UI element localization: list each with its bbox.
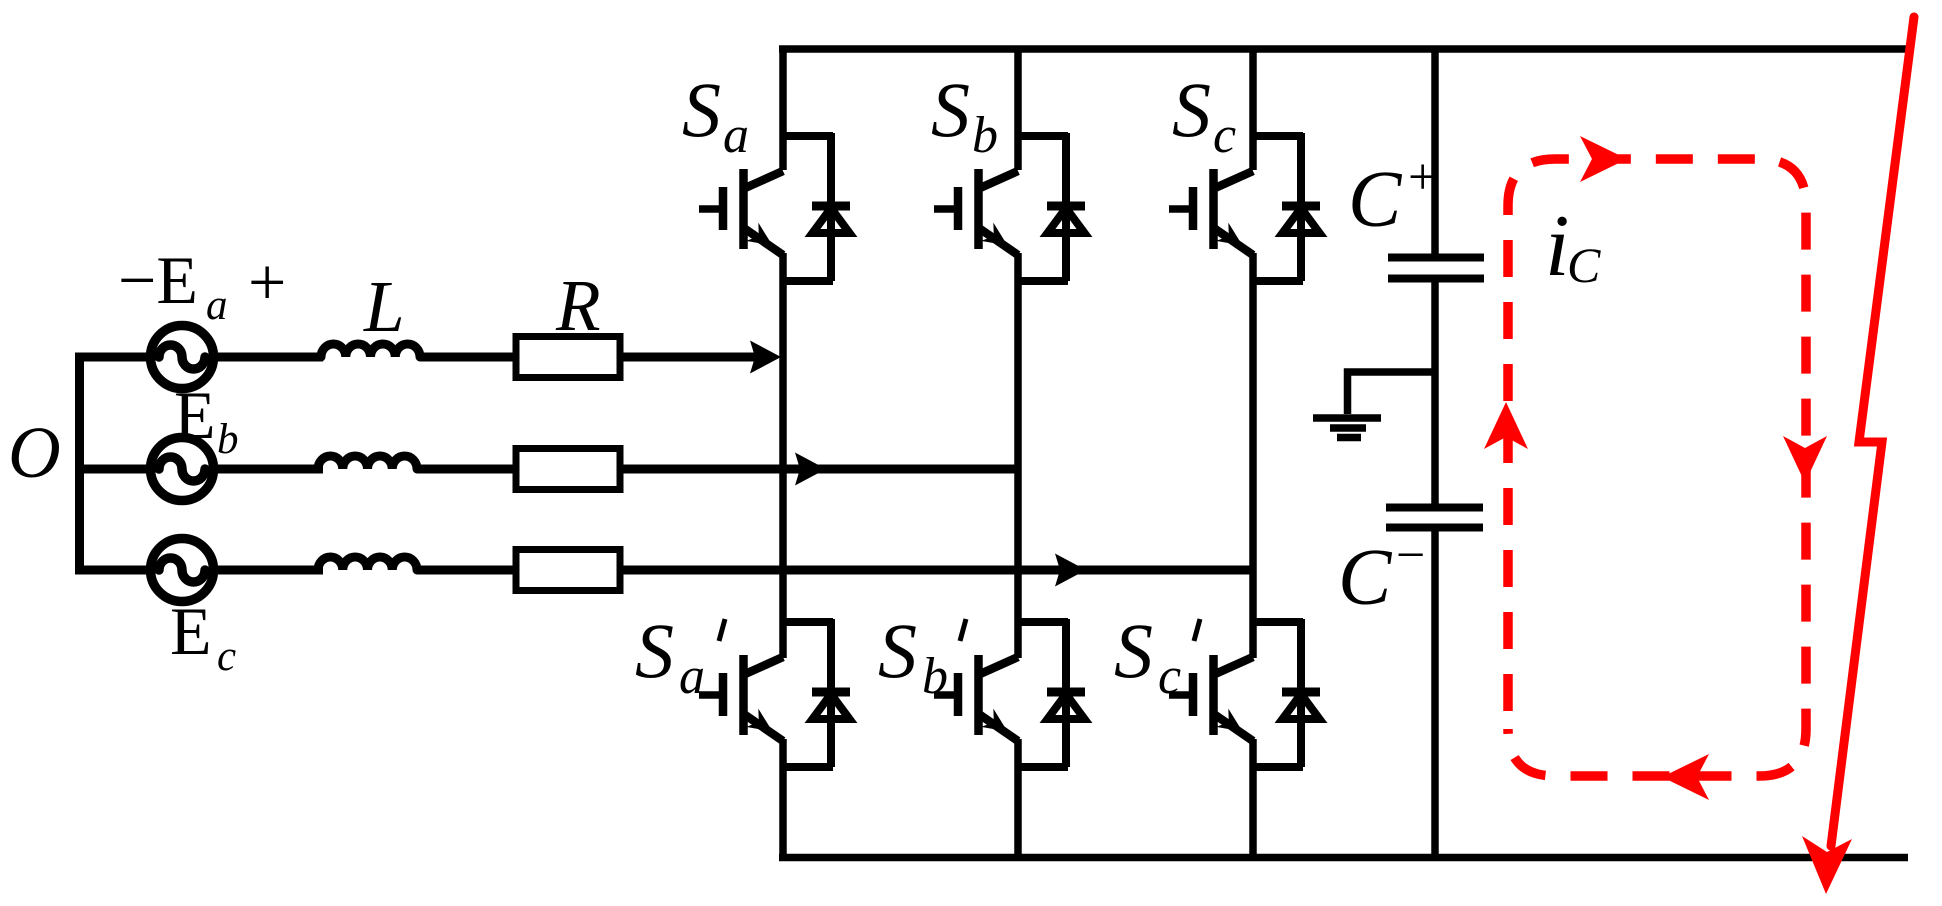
collector lead diagonal bbox=[1214, 657, 1253, 675]
svg-text:i: i bbox=[1545, 198, 1569, 295]
gate bar bbox=[1189, 187, 1198, 230]
wire phase c: source to inductor bbox=[213, 566, 323, 575]
svg-text:S: S bbox=[931, 66, 970, 153]
wire emitter branch bottom bbox=[1018, 763, 1068, 771]
gate lead bbox=[1169, 691, 1193, 699]
wire collector branch top bbox=[1018, 132, 1068, 140]
AC source Eb bbox=[151, 438, 214, 501]
svg-text:c: c bbox=[217, 633, 236, 680]
svg-text:C: C bbox=[1567, 237, 1601, 293]
wire collector branch top bbox=[783, 618, 833, 626]
svg-text:c: c bbox=[1158, 648, 1181, 705]
emitter lead diagonal bbox=[1215, 229, 1254, 256]
wire bridge leg c upper bbox=[1249, 46, 1257, 170]
diode D_Sb cathode bar bbox=[1047, 202, 1085, 211]
wire diode branch vertical bbox=[1297, 133, 1305, 281]
emitter lead diagonal bbox=[1215, 715, 1254, 742]
svg-text:−E: −E bbox=[118, 242, 198, 318]
label C- bbox=[1338, 527, 1425, 622]
wire bridge leg a lower bbox=[779, 739, 787, 860]
label Sa' bbox=[635, 607, 705, 705]
svg-text:−: − bbox=[1396, 527, 1425, 584]
wire diode branch vertical bbox=[1297, 619, 1305, 767]
wire emitter branch bottom bbox=[783, 763, 833, 771]
wire bridge leg a upper bbox=[779, 46, 787, 170]
IGBT body bar bbox=[974, 655, 983, 735]
prime mark of Sa' bbox=[719, 619, 725, 641]
wire phase c: inductor to resistor bbox=[417, 566, 518, 575]
wire emitter branch bottom bbox=[783, 277, 833, 285]
svg-text:C: C bbox=[1338, 534, 1393, 622]
wire phase a: resistor to bridge leg a bbox=[620, 353, 760, 362]
IGBT body bar bbox=[974, 169, 983, 249]
transistor Sc' (IGBT with anti-parallel diode) bbox=[1169, 619, 1320, 767]
collector lead diagonal bbox=[744, 657, 783, 675]
wire DC link vertical lower bbox=[1431, 531, 1439, 861]
svg-text:O: O bbox=[8, 412, 61, 493]
diode D_Sb triangle bbox=[1048, 208, 1085, 233]
gate bar bbox=[954, 187, 963, 230]
collector lead diagonal bbox=[979, 171, 1018, 189]
wire bridge leg b upper bbox=[1014, 46, 1022, 170]
wire phase b: source to inductor bbox=[213, 465, 323, 474]
label Sc' bbox=[1114, 607, 1181, 705]
IGBT body bar bbox=[739, 169, 748, 249]
wire diode branch vertical bbox=[1062, 619, 1070, 767]
gate lead bbox=[934, 205, 958, 213]
label Sc bbox=[1172, 66, 1236, 164]
resistor R phase c bbox=[516, 550, 620, 591]
gate lead bbox=[699, 691, 723, 699]
transistor Sa' (IGBT with anti-parallel diode) bbox=[699, 619, 850, 767]
diode D_Sc cathode bar bbox=[1282, 202, 1320, 211]
wire diode branch vertical bbox=[827, 619, 835, 767]
diode D_Sa' triangle bbox=[813, 694, 850, 719]
wire neutral bus vertical bbox=[75, 353, 84, 575]
svg-text:c: c bbox=[1213, 107, 1236, 164]
IGBT body bar bbox=[1209, 655, 1218, 735]
wire neutral stub phase c bbox=[76, 566, 151, 575]
label Sa bbox=[682, 66, 749, 164]
emitter arrow bbox=[981, 709, 1014, 741]
label C+ bbox=[1348, 149, 1437, 244]
red lightning bolt arrowhead bbox=[1802, 836, 1852, 894]
svg-text:a: a bbox=[723, 107, 749, 164]
emitter arrow bbox=[981, 223, 1014, 255]
wire DC link vertical upper bbox=[1431, 46, 1439, 254]
gate lead bbox=[934, 691, 958, 699]
svg-text:R: R bbox=[555, 265, 601, 346]
wire DC link vertical middle bbox=[1431, 282, 1439, 504]
wire negative DC rail (bottom) bbox=[779, 854, 1908, 862]
arrow iC bottom (leftward) bbox=[1662, 754, 1709, 800]
gate bar bbox=[719, 187, 728, 230]
arrow iC left (upward) bbox=[1484, 402, 1528, 449]
arrow phase b current bbox=[795, 453, 826, 486]
prime mark of Sc' bbox=[1194, 619, 1200, 641]
diode D_Sa triangle bbox=[813, 208, 850, 233]
label Sb bbox=[931, 66, 998, 164]
arrow iC top (rightward) bbox=[1580, 136, 1627, 182]
svg-text:a: a bbox=[679, 648, 705, 705]
transistor Sc (IGBT with anti-parallel diode) bbox=[1169, 133, 1320, 281]
wire bridge leg c middle bbox=[1249, 253, 1257, 658]
collector lead diagonal bbox=[1214, 171, 1253, 189]
transistor Sb' (IGBT with anti-parallel diode) bbox=[934, 619, 1085, 767]
diode D_Sb' cathode bar bbox=[1047, 688, 1085, 697]
resistor R phase a bbox=[516, 337, 620, 378]
diode D_Sc triangle bbox=[1283, 208, 1320, 233]
emitter lead diagonal bbox=[980, 229, 1019, 256]
label Eb bbox=[174, 377, 239, 463]
label Sb' bbox=[878, 607, 948, 705]
wire collector branch top bbox=[1253, 618, 1303, 626]
diode D_Sb' triangle bbox=[1048, 694, 1085, 719]
svg-text:E: E bbox=[174, 377, 216, 453]
arrow iC right (downward) bbox=[1783, 436, 1827, 483]
capacitor C- bbox=[1386, 508, 1483, 528]
wire phase a: inductor to resistor bbox=[420, 353, 518, 362]
svg-text:S: S bbox=[1114, 607, 1153, 694]
inductor L phase b bbox=[318, 456, 417, 469]
AC source Ea bbox=[151, 326, 214, 389]
IGBT body bar bbox=[739, 655, 748, 735]
wire phase c: resistor to bridge leg c bbox=[620, 566, 1253, 575]
wire diode branch vertical bbox=[1062, 133, 1070, 281]
label iC bbox=[1545, 198, 1601, 295]
wire collector branch top bbox=[783, 132, 833, 140]
wire collector branch top bbox=[1253, 132, 1303, 140]
wire positive DC rail (top) bbox=[779, 45, 1906, 53]
wire emitter branch bottom bbox=[1253, 763, 1303, 771]
capacitor C+ bbox=[1388, 258, 1484, 279]
wire bridge leg a middle bbox=[779, 253, 787, 658]
arrow phase a current bbox=[750, 341, 781, 374]
transistor Sa (IGBT with anti-parallel diode) bbox=[699, 133, 850, 281]
svg-text:b: b bbox=[217, 416, 239, 463]
wire ground stub horizontal bbox=[1344, 368, 1435, 376]
wire bridge leg c lower bbox=[1249, 739, 1257, 860]
svg-text:b: b bbox=[972, 107, 998, 164]
wire neutral stub phase b bbox=[76, 465, 151, 474]
svg-text:b: b bbox=[922, 648, 948, 705]
svg-text:L: L bbox=[363, 266, 405, 347]
resistor R phase b bbox=[516, 449, 620, 490]
wire bridge leg b lower bbox=[1014, 739, 1022, 860]
gate bar bbox=[1189, 673, 1198, 716]
gate bar bbox=[954, 673, 963, 716]
svg-text:E: E bbox=[170, 593, 212, 669]
wire bridge leg b middle bbox=[1014, 253, 1022, 658]
wire emitter branch bottom bbox=[1018, 277, 1068, 285]
wire diode branch vertical bbox=[827, 133, 835, 281]
red lightning bolt (fault current) polyline bbox=[1831, 17, 1914, 846]
gate bar bbox=[719, 673, 728, 716]
svg-text:+: + bbox=[248, 244, 286, 320]
gate lead bbox=[699, 205, 723, 213]
emitter arrow bbox=[1216, 709, 1249, 741]
svg-text:S: S bbox=[635, 607, 674, 694]
wire emitter branch bottom bbox=[1253, 277, 1303, 285]
wire ground stub vertical bbox=[1344, 369, 1352, 415]
label Ec bbox=[170, 593, 236, 680]
prime mark of Sb' bbox=[960, 619, 966, 641]
diode D_Sa' cathode bar bbox=[812, 688, 850, 697]
svg-text:S: S bbox=[878, 607, 917, 694]
emitter lead diagonal bbox=[980, 715, 1019, 742]
collector lead diagonal bbox=[979, 657, 1018, 675]
wire phase b: resistor to bridge leg b bbox=[620, 465, 1018, 474]
red dashed loop of capacitor current iC bbox=[1508, 159, 1806, 776]
gate lead bbox=[1169, 205, 1193, 213]
AC source Ec bbox=[151, 539, 214, 602]
inductor L phase c bbox=[318, 557, 417, 570]
svg-text:S: S bbox=[682, 66, 721, 153]
emitter arrow bbox=[746, 223, 779, 255]
diode D_Sc' triangle bbox=[1283, 694, 1320, 719]
diode D_Sa cathode bar bbox=[812, 202, 850, 211]
transistor Sb (IGBT with anti-parallel diode) bbox=[934, 133, 1085, 281]
wire neutral stub phase a bbox=[76, 353, 151, 362]
svg-text:a: a bbox=[206, 282, 228, 329]
diode D_Sc' cathode bar bbox=[1282, 688, 1320, 697]
inductor L phase a bbox=[321, 344, 420, 357]
wire collector branch top bbox=[1018, 618, 1068, 626]
svg-text:C: C bbox=[1348, 156, 1403, 244]
emitter lead diagonal bbox=[745, 229, 784, 256]
collector lead diagonal bbox=[744, 171, 783, 189]
wire phase a: source to inductor bbox=[213, 353, 323, 362]
emitter lead diagonal bbox=[745, 715, 784, 742]
emitter arrow bbox=[1216, 223, 1249, 255]
svg-text:+: + bbox=[1408, 149, 1437, 206]
wire phase b: inductor to resistor bbox=[417, 465, 518, 474]
svg-text:S: S bbox=[1172, 66, 1211, 153]
ground symbol bbox=[1313, 418, 1381, 438]
emitter arrow bbox=[746, 709, 779, 741]
IGBT body bar bbox=[1209, 169, 1218, 249]
label -Ea+ bbox=[118, 242, 286, 329]
arrow phase c current bbox=[1055, 554, 1086, 587]
